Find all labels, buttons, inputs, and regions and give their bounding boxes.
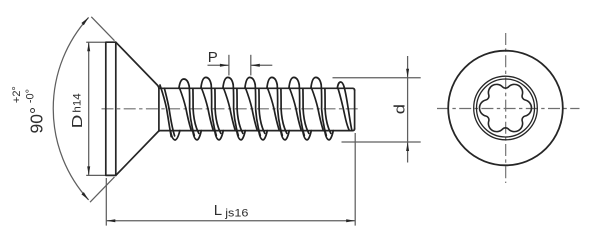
L arrowhead right [346, 219, 355, 222]
cone base edge [158, 86, 160, 131]
thread 3 bottom crest [237, 131, 246, 140]
thread 5 thread mid flank [277, 85, 282, 136]
D arrowhead top [87, 42, 90, 51]
arc arrowhead bottom [81, 192, 88, 200]
thread 1 top crest [179, 79, 189, 88]
thread 2 thread back flank [215, 88, 221, 133]
thread 1 bottom crest [193, 131, 202, 140]
thread 1 thread front flank [180, 88, 192, 131]
P arrow left [208, 64, 229, 66]
d extension line bottom [342, 141, 421, 143]
D h14 label [69, 93, 86, 128]
thread 3 top crest [223, 77, 233, 88]
thread runout front flank [338, 88, 349, 130]
d label [391, 104, 408, 114]
centerline side view [102, 108, 362, 110]
thread 3 thread front flank [224, 88, 236, 131]
d arrowhead top [406, 69, 409, 78]
thread 7 bottom crest [325, 131, 334, 140]
angle extension line top flank [91, 17, 114, 41]
d extension line top [333, 77, 421, 79]
thread 7 thread back flank [325, 88, 331, 133]
d arrowhead bottom [406, 142, 409, 151]
thread 6 top crest [289, 77, 299, 88]
L dimension line [106, 220, 355, 222]
centerline end view vertical [505, 33, 507, 183]
svg-text:D: D [69, 114, 86, 128]
thread runout top crest [337, 82, 344, 88]
head outer circle [448, 51, 563, 166]
svg-text:P: P [208, 49, 218, 66]
D arrowhead bottom [87, 166, 90, 175]
screw head face [106, 42, 116, 175]
thread 5 bottom crest [281, 131, 290, 140]
thread 5 thread back flank [281, 88, 287, 133]
arc arrowhead top [81, 17, 88, 25]
svg-text:d: d [391, 104, 408, 114]
thread 5 thread front flank [268, 88, 280, 131]
thread 6 bottom crest [303, 131, 312, 140]
thread 6 thread back flank [303, 88, 309, 133]
thread start back flank at cone junction [164, 88, 174, 136]
thread runout back flank [344, 87, 352, 130]
L extension line right [354, 133, 356, 226]
thread 2 top crest [201, 77, 211, 88]
thread start bottom crest [171, 131, 180, 140]
svg-text:-0°: -0° [24, 89, 36, 103]
countersink cone top flank [116, 42, 159, 88]
countersink cone bottom flank [116, 131, 159, 176]
svg-text:h14: h14 [71, 93, 83, 112]
angle label 90deg +2 -0 [11, 86, 46, 133]
D extension line top [86, 41, 105, 43]
svg-text:+2°: +2° [11, 86, 23, 103]
L arrowhead left [106, 219, 115, 222]
thread 3 thread back flank [237, 88, 243, 133]
angle extension line bottom flank [90, 177, 115, 202]
thread 7 thread front flank [312, 88, 324, 131]
thread 4 bottom crest [259, 131, 268, 140]
D extension line bottom [86, 174, 105, 176]
thread 1 thread mid flank [189, 86, 194, 135]
thread 5 top crest [267, 77, 277, 88]
P extension line right [250, 55, 252, 76]
thread 2 thread front flank [202, 88, 214, 131]
root bottom line [159, 129, 355, 131]
thread 7 top crest [311, 77, 321, 88]
tip face [354, 90, 356, 129]
thread 4 top crest [245, 77, 255, 88]
L extension line left [105, 178, 107, 226]
thread 7 thread mid flank [321, 85, 326, 136]
thread 2 thread mid flank [211, 85, 216, 136]
d dimension line [407, 56, 409, 163]
P arrow right [251, 64, 272, 66]
recess chamfer circle [474, 76, 538, 140]
thread 4 thread front flank [246, 88, 258, 131]
thread 1 thread back flank [193, 88, 199, 133]
recess circle [477, 79, 535, 137]
P extension line left [228, 55, 230, 76]
torx recess star [479, 84, 531, 131]
thread 6 thread mid flank [299, 85, 304, 136]
thread 3 thread mid flank [233, 85, 238, 136]
root top line [159, 88, 355, 90]
thread start front flank at cone junction [160, 85, 171, 137]
thread 2 bottom crest [215, 131, 224, 140]
centerline end view horizontal [437, 108, 580, 110]
thread 4 thread back flank [259, 88, 265, 133]
D dimension line [88, 42, 90, 175]
thread 4 thread mid flank [255, 85, 260, 136]
svg-text:90°: 90° [27, 107, 47, 133]
thread 6 thread front flank [290, 88, 302, 131]
angle dimension arc [53, 17, 88, 200]
